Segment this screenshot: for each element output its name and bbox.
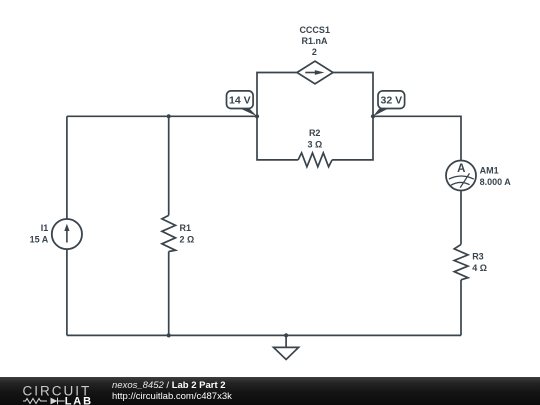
label R3 value — [472, 252, 487, 274]
wire R3 bottom to bottom rail — [460, 280, 462, 336]
wire CCCS right to right node — [333, 73, 373, 117]
label CCCS1 — [299, 25, 330, 57]
svg-text:2: 2 — [312, 47, 317, 57]
wire top-left horizontal (node 14V to left rail) — [67, 115, 257, 117]
wire left node up to CCCS left — [257, 73, 297, 117]
svg-text:AM1: AM1 — [480, 165, 499, 175]
wire left rail lower (I1 bottom to bottom rail) — [66, 249, 68, 335]
svg-text:CCCS1: CCCS1 — [299, 25, 330, 35]
node dot ground junction — [284, 333, 288, 337]
wire R1 branch upper — [168, 116, 170, 215]
svg-text:14 V: 14 V — [229, 95, 251, 107]
node dot junction R1 top — [167, 114, 171, 118]
wire right node to right rail corner — [373, 116, 461, 160]
node dot 32V — [371, 114, 375, 118]
label AM1 value — [480, 165, 512, 187]
label I1 value — [30, 223, 49, 245]
node dot junction R1 bottom — [167, 333, 171, 337]
ammeter AM1 — [446, 161, 476, 191]
ground — [274, 347, 299, 359]
voltage callout 32 V — [373, 91, 405, 116]
svg-text:15 A: 15 A — [30, 234, 49, 244]
voltage callout 14 V — [227, 91, 257, 116]
svg-text:32 V: 32 V — [380, 95, 402, 107]
svg-text:I1: I1 — [41, 223, 49, 233]
wire bottom rail — [67, 334, 461, 336]
current source I1 — [52, 219, 82, 249]
svg-text:LAB: LAB — [65, 396, 93, 405]
svg-text:R1: R1 — [180, 223, 192, 233]
footer bar — [0, 377, 540, 405]
svg-text:R2: R2 — [309, 128, 321, 138]
svg-text:2 Ω: 2 Ω — [180, 234, 195, 244]
svg-text:3 Ω: 3 Ω — [308, 139, 323, 149]
footer text — [112, 380, 232, 402]
CCCS1 diamond source — [297, 61, 333, 84]
svg-text:R1.nA: R1.nA — [301, 36, 328, 46]
wire R1 branch lower — [168, 252, 170, 336]
svg-text:8.000 A: 8.000 A — [480, 177, 512, 187]
node dot 14V — [255, 114, 259, 118]
wire ground stem — [285, 335, 287, 347]
resistor R3 — [454, 244, 468, 279]
CircuitLab logo — [22, 377, 97, 405]
wire AM1 bottom to R3 top — [460, 190, 462, 244]
wire left rail upper (corner to I1 top) — [66, 116, 68, 219]
resistor R2 — [298, 153, 332, 167]
label R2 value — [308, 128, 323, 149]
wire left node down to R2 level — [257, 116, 298, 160]
resistor R1 — [162, 215, 176, 251]
wire R2 right lead to right node — [332, 116, 373, 160]
svg-text:4 Ω: 4 Ω — [472, 263, 487, 273]
label R1 value — [180, 223, 195, 245]
svg-text:A: A — [457, 163, 465, 175]
svg-text:R3: R3 — [472, 252, 484, 262]
